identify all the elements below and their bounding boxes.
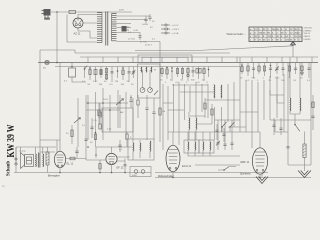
band component m4 x177.5 [176, 67, 180, 85]
band component r1 x242 [240, 63, 243, 80]
svg-text:Schaub: Schaub [6, 161, 12, 176]
band component r9 x289.5 [288, 63, 291, 80]
fuse Si1 [69, 10, 76, 13]
label ECH 11 [182, 164, 192, 168]
resistor R12 hatched [46, 147, 49, 173]
band component 7 x117.5 [115, 67, 118, 84]
wire secondary bottom [117, 42, 161, 53]
band component 1 x84.5 [82, 66, 87, 83]
legend row 2 [161, 28, 180, 31]
coupling box 4,25 [102, 108, 133, 132]
svg-text:= 6,3 V: = 6,3 V [172, 25, 180, 27]
band component r4 x259 [257, 63, 260, 83]
IF can outline T5 [199, 140, 214, 153]
legend row 3 [161, 32, 179, 35]
IF transformer T5 winding a [202, 132, 205, 156]
wire right bottom [288, 160, 311, 165]
table side notes [304, 28, 313, 41]
svg-text:1M: 1M [162, 111, 165, 113]
wire el11 top [40, 139, 60, 141]
chassis ground arrow 1 [256, 173, 268, 184]
label EL 11 [67, 162, 74, 166]
wire rail y66.5 [55, 66, 240, 68]
osc coil pair La [188, 112, 191, 140]
IF transformer T2 winding b [139, 140, 142, 158]
svg-text:AZ 11: AZ 11 [74, 32, 81, 36]
capacitor C20 [145, 95, 148, 140]
resistor R15 hatched [303, 132, 306, 169]
capacitor C1 [144, 16, 147, 23]
label Lautsprecher [19, 150, 27, 153]
node bus junction B [56, 62, 58, 64]
band component 8 x123 [121, 67, 125, 87]
switch S4 [221, 122, 226, 132]
model text KW 39 W [6, 124, 17, 157]
svg-text:ECH 11: ECH 11 [182, 164, 192, 168]
output transformer T3 winding b [42, 154, 45, 167]
wire primary left [67, 15, 97, 43]
resistor R18 [211, 104, 213, 124]
IF transformer T5 winding b [209, 132, 212, 156]
svg-text:= 200 V: = 200 V [172, 29, 180, 31]
band switch drum box [138, 64, 161, 98]
band component r11 x302 [300, 63, 303, 80]
band component 6 x112 [110, 67, 114, 87]
capacitor C23 [118, 140, 121, 152]
demod tube EBF11 [252, 132, 267, 178]
dial lamp La1 [43, 60, 49, 69]
wire ebf top [240, 120, 288, 132]
resistor R14 [99, 160, 101, 173]
output transformer T3 core [38, 153, 40, 168]
band stub x62 [59, 63, 61, 141]
band component m10 x208.5 [207, 67, 210, 85]
band component m9 x204 [202, 67, 205, 82]
label 6,3V [134, 30, 139, 32]
resistor R17 [204, 98, 206, 118]
wire rail main y62.5 [38, 62, 318, 64]
junction box K2 [64, 63, 86, 83]
band component 3 x95.5 [93, 67, 98, 84]
label Wellenschalter [227, 32, 247, 36]
node mains junction [56, 11, 58, 13]
wire plug drop [56, 12, 58, 63]
IF transformer T2 winding a [132, 140, 135, 160]
svg-text:Lautspr.: Lautspr. [19, 150, 27, 153]
svg-text:25 317: 25 317 [145, 45, 152, 47]
wire drops mid [163, 82, 222, 150]
wire x86 drop [85, 95, 87, 160]
wire left riser x40 [40, 50, 75, 152]
detector comp D1 [126, 132, 132, 147]
IF can outline T4 [184, 140, 199, 153]
wire rail y57 [80, 56, 318, 58]
svg-text:220V: 220V [119, 10, 125, 12]
capacitor C27 [230, 120, 233, 150]
svg-text:3-12: 3-12 [275, 78, 280, 80]
oscillator coil L4 [220, 85, 223, 98]
output tube EL11 [54, 140, 65, 173]
node bus dots [59, 172, 261, 179]
chassis ground arrow 2 [298, 168, 311, 178]
band component r2 x248 [246, 63, 250, 83]
label EBF 11 [241, 160, 250, 164]
capacitor C24 [123, 159, 126, 173]
bottom box [130, 167, 151, 177]
wire y132 mid [168, 131, 240, 133]
label 4V [152, 21, 155, 23]
resistor R20 [137, 95, 139, 118]
svg-text:Wellenschalter→: Wellenschalter→ [227, 32, 247, 36]
svg-text:EBF 11: EBF 11 [241, 160, 250, 164]
capacitor C21 [152, 98, 155, 140]
svg-text:6,3V: 6,3V [134, 30, 139, 32]
speaker terminals [15, 147, 17, 173]
svg-text:5 EM11: 5 EM11 [304, 39, 312, 41]
band component 2 x90 [88, 67, 92, 87]
wire drops right [228, 57, 311, 165]
band component m6 x188 [186, 67, 189, 85]
capacitor C34 [279, 118, 282, 135]
capacitor C30 [90, 118, 93, 138]
band component r10 x295.5 [294, 63, 298, 83]
band component m3 x172 [170, 67, 173, 82]
node dots mid [87, 102, 121, 156]
capacitor C22 [75, 147, 79, 158]
capacitor C33 [272, 118, 275, 135]
svg-text:= 0,3 A: = 0,3 A [172, 32, 179, 35]
wire coil join [290, 114, 300, 120]
volume pot P2 [116, 95, 124, 128]
band component m5 x182.5 [181, 67, 184, 82]
resistor R10 [94, 103, 102, 129]
cap pair C35 [129, 95, 132, 108]
label under EL11 [48, 175, 60, 178]
switch S5 [229, 122, 234, 132]
osc coil pair Lb [195, 112, 198, 140]
resistor R9 [66, 125, 73, 144]
wire right mid [270, 119, 311, 121]
svg-text:1 ECH11: 1 ECH11 [304, 28, 313, 30]
svg-text:4 AZ11: 4 AZ11 [304, 35, 311, 38]
grid stopper R13 [66, 157, 86, 160]
model text Schaub [6, 161, 12, 176]
wire tube connections [78, 15, 97, 39]
AF tube EF11 [106, 147, 117, 173]
band component 4 x101 [99, 67, 103, 87]
band component m8 x198.5 [196, 67, 201, 85]
wire audio top [16, 147, 56, 164]
band component r8 x283 [281, 63, 285, 83]
power transformer Tr primary winding [97, 13, 102, 43]
trimmer C26 [223, 120, 226, 150]
antenna coil L6 [299, 92, 302, 114]
resistor R16 [94, 132, 96, 140]
capacitor C32 [222, 128, 225, 142]
wire rail ticks [88, 57, 312, 63]
wire mid links2 [163, 100, 258, 127]
electrolytic C3 [139, 33, 142, 40]
wire bottom bus left [14, 172, 151, 174]
band component 5 x106.5 [104, 67, 108, 84]
svg-text:2M: 2M [115, 81, 118, 83]
oscillator coil L3 [213, 84, 216, 98]
output transformer T3 winding a [35, 154, 38, 167]
wire antenna feed diagonal [135, 46, 293, 51]
switch S3 [294, 120, 300, 131]
svg-text:2 EBF11: 2 EBF11 [304, 30, 313, 32]
wire secondary tap 5 [117, 32, 141, 34]
capacitor C2 [148, 14, 151, 21]
label AZ 11 [74, 32, 81, 36]
mains antenna plug X1 [42, 9, 51, 20]
band component m7 x193 [191, 67, 195, 82]
capacitor C31 [215, 124, 218, 140]
speaker LS [21, 153, 34, 169]
capacitor C19 [84, 139, 87, 140]
wire right top links [270, 90, 284, 103]
svg-text:Sperrkreis: Sperrkreis [240, 173, 251, 176]
right edge box [311, 95, 314, 130]
connector lug K1 [122, 26, 130, 32]
wire rail y53 [75, 52, 230, 54]
svg-text:12 704: 12 704 [128, 39, 135, 41]
IF transformer T2 winding c [149, 141, 152, 158]
antenna coil L5 [289, 92, 292, 114]
IF transformer T4 winding b [194, 132, 197, 156]
wire af links [86, 147, 132, 161]
label 2x350 [142, 24, 149, 26]
tube voltage table [249, 27, 302, 42]
IF transformer T4 winding a [187, 132, 190, 156]
wire secondary tap 4 [117, 27, 132, 29]
antenna symbol [290, 41, 295, 46]
label EF 11 [117, 166, 124, 170]
corner mark [2, 186, 5, 188]
wire if links [155, 156, 311, 178]
label under EBF11 [240, 173, 251, 176]
svg-text:31 705: 31 705 [140, 42, 147, 44]
svg-text:Bremsgitter: Bremsgitter [48, 175, 60, 178]
wire secondary tap 3 [117, 23, 132, 25]
wire secondary tap 2 [117, 19, 147, 21]
svg-text:KW 39 W: KW 39 W [6, 124, 17, 157]
capacitor C28 [286, 140, 289, 160]
wire osc link [172, 85, 214, 92]
rectifier tube AZ11 [73, 18, 83, 28]
pot P1 arrow [74, 98, 81, 147]
IF can outline T2 [128, 139, 154, 160]
svg-text:2x350: 2x350 [142, 24, 149, 26]
band component r5 x264.5 [263, 63, 266, 80]
wire mains top [51, 11, 132, 13]
band component m1 x162 [160, 67, 163, 82]
trimmer C25 [216, 120, 220, 150]
band component r3 x253.5 [252, 63, 256, 80]
resistor R11 [159, 52, 165, 142]
svg-text:3-12: 3-12 [93, 81, 98, 83]
svg-text:3 EL11: 3 EL11 [304, 33, 311, 35]
svg-text:5600: 5600 [132, 175, 138, 177]
power transformer Tr core [106, 12, 108, 46]
svg-text:EL 11: EL 11 [67, 162, 74, 166]
switch S2 [218, 166, 236, 171]
label 220V [119, 10, 125, 12]
shield box dial [138, 55, 192, 63]
wire antenna drop [292, 46, 294, 57]
wire secondary tap 1 [117, 15, 151, 17]
wire drops left mid [88, 88, 133, 147]
band component m2 x167 [165, 67, 168, 85]
label values row [128, 27, 156, 47]
resistor R19 [98, 103, 100, 125]
legend row 1 [161, 24, 179, 27]
band component r7 x277 [275, 63, 280, 80]
power transformer Tr secondary winding [112, 14, 117, 41]
band component r12 x309 [307, 63, 311, 83]
band component 9 x129 [127, 67, 131, 84]
mixer tube ECH11 [166, 132, 180, 178]
svg-text:2x0,1: 2x0,1 [103, 99, 109, 101]
band component r6 x270.5 [269, 63, 273, 83]
wire mid horizontals [40, 103, 128, 152]
label under ECH11 [158, 175, 174, 178]
band component 10 x133.5 [131, 67, 135, 87]
svg-text:EF 11: EF 11 [117, 166, 124, 170]
label cluster mid [82, 99, 123, 151]
